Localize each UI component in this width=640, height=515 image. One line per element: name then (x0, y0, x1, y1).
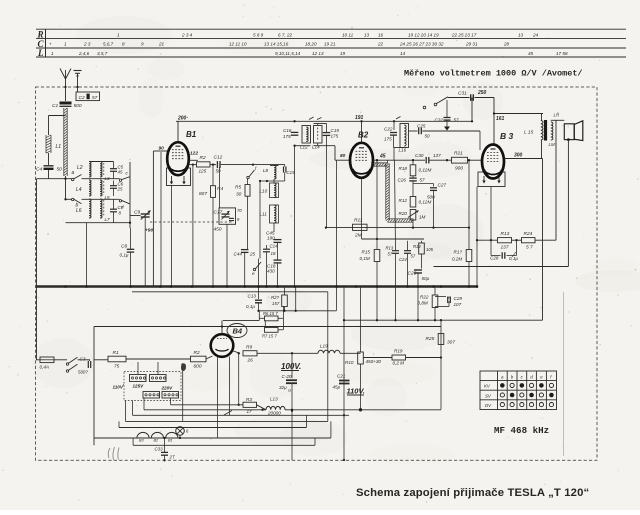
svg-text:B 3: B 3 (500, 131, 514, 141)
svg-text:d: d (121, 205, 124, 210)
wire B3 plate (493, 114, 495, 145)
svg-text:L10: L10 (260, 189, 268, 194)
wire antenna lead lower (65, 176, 67, 200)
transformer core (544, 120, 547, 141)
wire R20 down (412, 220, 414, 228)
capacitor C3 (87, 361, 89, 368)
wire 409 h (292, 409, 441, 411)
node R13 left (490, 239, 492, 241)
rail 200V top (176, 120, 295, 122)
wire B2 plate (361, 121, 363, 143)
svg-text:Měřeno voltmetrem 1000 Ω/V /Av: Měřeno voltmetrem 1000 Ω/V /Avomet/ (404, 69, 583, 79)
wire cathode line (477, 239, 497, 241)
wire L11 to C45 (273, 223, 275, 232)
table line R/C (36, 37, 626, 39)
wire B1 lead1 to bus (160, 152, 162, 287)
svg-text:+90: +90 (145, 228, 153, 234)
svg-text:2 3: 2 3 (83, 42, 91, 47)
wire B1 cathode to bus (192, 165, 194, 287)
svg-text:L1: L1 (56, 144, 62, 150)
wire fuse to switch (54, 359, 67, 361)
rail C31 (448, 97, 470, 99)
svg-text:L13: L13 (270, 397, 278, 402)
tube B3 (482, 145, 504, 179)
svg-text:18: 18 (271, 251, 276, 256)
svg-text:137: 137 (433, 153, 441, 158)
node ground junction (76, 86, 78, 88)
node 320 dots (376, 319, 378, 321)
svg-text:C13: C13 (248, 294, 257, 299)
wire 300 line (504, 158, 543, 160)
wire block bottom to C9 (130, 215, 141, 217)
svg-text:5 8 9: 5 8 9 (253, 32, 264, 37)
inductor L4 (89, 180, 91, 196)
svg-text:R20: R20 (399, 211, 408, 216)
svg-text:C22: C22 (384, 127, 393, 132)
svg-text:110V.: 110V. (347, 387, 365, 396)
svg-text:G: G (288, 388, 291, 393)
svg-text:LŘ: LŘ (554, 113, 560, 118)
table frame bottom line (36, 56, 626, 58)
capacitor C26 (409, 177, 417, 179)
chassis dashed border (36, 87, 598, 460)
tube B1 socket box (167, 168, 191, 186)
node R9 C20 (291, 352, 293, 354)
inductor L14 (314, 126, 323, 144)
svg-text:Schema zapojení přijimače TESL: Schema zapojení přijimače TESLA „T 120“ (356, 487, 589, 499)
wire C21 column (343, 288, 345, 461)
wire selector right col (182, 365, 184, 421)
svg-text:DV: DV (485, 403, 492, 408)
svg-text:C26: C26 (398, 178, 407, 183)
heater winding B2 (151, 432, 163, 438)
wire C3 to box (94, 359, 109, 361)
hatched gang horizontal (388, 218, 414, 220)
wire R1 to R2 (126, 358, 191, 360)
wire 447 col (446, 130, 448, 160)
svg-text:161: 161 (496, 116, 505, 122)
svg-text:110V̕: 110V̕ (113, 383, 124, 390)
svg-text:C32: C32 (435, 118, 444, 123)
resistor R13 (498, 238, 512, 243)
svg-text:175: 175 (283, 134, 291, 139)
svg-text:0,12M: 0,12M (419, 200, 432, 205)
heater line2 (133, 444, 315, 446)
svg-text:8: 8 (122, 42, 125, 47)
heater winding B3 (137, 432, 149, 438)
wire fuse line left (36, 359, 40, 361)
wire IF1 sec bottom (317, 143, 319, 146)
wire C45 down (277, 242, 279, 260)
svg-text:R9: R9 (246, 345, 252, 351)
svg-text:C31: C31 (458, 91, 467, 97)
inductor L15 secondary (551, 122, 553, 140)
svg-text:13: 13 (518, 32, 524, 37)
svg-text:50: 50 (57, 167, 63, 173)
wire IF2 sec top (409, 130, 418, 132)
wire C33 column (164, 438, 166, 452)
resistor R25 (438, 334, 444, 345)
svg-text:0,2 M: 0,2 M (393, 361, 405, 366)
inductor L7 (100, 199, 102, 218)
svg-text:57: 57 (92, 95, 98, 101)
resistor R1 (108, 356, 126, 362)
inductor L2 (89, 162, 91, 178)
svg-text:R2: R2 (194, 350, 200, 356)
svg-text:22: 22 (377, 42, 384, 47)
svg-text:0,1μ: 0,1μ (120, 253, 129, 258)
wire heater run below bus (132, 291, 328, 293)
svg-text:R2: R2 (200, 155, 206, 161)
svg-text:C16: C16 (283, 128, 292, 133)
svg-text:13: 13 (364, 32, 370, 37)
wire C13 down (258, 303, 260, 311)
wire heater right up (330, 421, 332, 438)
svg-text:25: 25 (117, 187, 123, 192)
wire B1 plate (177, 121, 179, 142)
svg-text:220V: 220V (161, 386, 174, 391)
wire B4 to R9 (233, 351, 240, 353)
wire switch f down (247, 179, 249, 185)
svg-text:90: 90 (159, 146, 165, 152)
wire B4 right (233, 347, 238, 350)
resistor R4 (211, 186, 216, 198)
svg-text:0,1M: 0,1M (360, 256, 370, 261)
svg-text:2,4,6: 2,4,6 (78, 51, 90, 56)
svg-text:450+30: 450+30 (366, 359, 382, 364)
svg-text:0,1μ: 0,1μ (246, 304, 255, 309)
resistor R7 (265, 328, 279, 333)
node IF2 top (393, 120, 395, 122)
svg-text:1: 1 (51, 51, 54, 56)
wire R15 to bus (376, 262, 378, 287)
wire L19 to R10 (340, 352, 361, 354)
svg-text:2M: 2M (354, 233, 362, 239)
wire R24 to LM (535, 239, 556, 241)
svg-text:L: L (37, 48, 44, 58)
svg-text:C14: C14 (270, 244, 279, 249)
variable capacitor C17 (222, 213, 230, 215)
wire L1 top link (49, 115, 66, 117)
wire block bottom bar (66, 222, 131, 224)
wire L8 L10 join (273, 179, 275, 183)
svg-text:300: 300 (514, 153, 523, 159)
resistor R2 heater (191, 356, 207, 362)
capacitor C14 (263, 248, 270, 250)
svg-text:45: 45 (118, 170, 123, 175)
wire R4 column top (212, 165, 214, 186)
wire AVC drop (326, 135, 328, 227)
wire C13 top (258, 288, 260, 300)
capacitor C33 (161, 451, 168, 453)
svg-text:12 11 10: 12 11 10 (229, 42, 247, 47)
wire C12 right (220, 164, 253, 166)
wire R19 line (363, 357, 392, 359)
wire C29 vert (448, 297, 450, 299)
selector plug row1b (150, 375, 167, 382)
wire right column of block (129, 162, 131, 228)
wire B3 lead to bus (476, 187, 478, 287)
table frame top line (36, 28, 626, 30)
svg-text:10 11: 10 11 (342, 32, 354, 37)
svg-text:0,12M: 0,12M (419, 168, 432, 173)
svg-text:45: 45 (379, 154, 386, 160)
wire nest1 (133, 414, 350, 416)
svg-text:24: 24 (532, 32, 539, 37)
tube B4 (211, 334, 234, 357)
wire B1 grid line (189, 159, 198, 161)
wire C33 to border (164, 455, 166, 460)
svg-text:26: 26 (247, 358, 254, 364)
wire 310 h (259, 310, 337, 312)
variable capacitor C9 (141, 213, 150, 215)
svg-text:125V: 125V (133, 384, 145, 389)
capacitor C18 (274, 259, 282, 261)
svg-text:B4: B4 (233, 327, 243, 336)
wire band row a (37, 178, 72, 180)
line y320 (344, 319, 543, 321)
wire C8 down (130, 252, 132, 286)
tube B2 (350, 143, 373, 178)
wire to osc coils (253, 164, 285, 166)
wire crossover jog (224, 411, 232, 416)
inductor L13 (266, 406, 285, 409)
wire osc top bar (252, 165, 254, 168)
svg-text:12 13: 12 13 (312, 51, 324, 56)
capacitor C21 (339, 380, 350, 382)
svg-text:57: 57 (411, 254, 416, 259)
inductor L16 (400, 124, 409, 148)
svg-text:L16: L16 (399, 148, 407, 153)
svg-text:C-20: C-20 (282, 374, 292, 379)
resistor R24 (522, 238, 536, 243)
svg-text:R19: R19 (394, 349, 403, 354)
svg-text:B2: B2 (358, 131, 369, 140)
wire lower return (434, 266, 569, 268)
svg-text:14: 14 (400, 51, 406, 56)
wire C9 down (144, 217, 146, 287)
capacitor C16 (291, 131, 299, 133)
wire R21 to B3 (468, 159, 483, 161)
capacitor C29 (435, 296, 446, 298)
svg-text:75: 75 (114, 364, 120, 370)
node avc R20 (412, 226, 414, 228)
svg-text:R7 15 7: R7 15 7 (262, 334, 277, 339)
resistor R9 (243, 351, 257, 356)
svg-text:C25: C25 (417, 124, 426, 129)
capacitor C2 (87, 94, 90, 100)
heater winding B1 (166, 432, 178, 438)
svg-text:70: 70 (237, 208, 242, 213)
mains switch (66, 363, 68, 365)
svg-text:0,2M: 0,2M (452, 257, 462, 262)
table row L numbers (51, 51, 568, 56)
wire nest3 (119, 427, 306, 429)
svg-text:600: 600 (194, 364, 202, 370)
node antenna junction (64, 86, 66, 88)
svg-text:C12: C12 (214, 155, 223, 161)
svg-text:45μ: 45μ (333, 385, 341, 390)
resistor R2 (197, 162, 211, 167)
svg-text:L2: L2 (77, 165, 83, 171)
wire R9 line (257, 352, 318, 354)
capacitor C32 (446, 100, 448, 117)
wire C4 down (48, 170, 50, 179)
resistor R6 (265, 316, 279, 321)
wire switch to C3 (78, 359, 91, 361)
capacitor C20 (286, 379, 297, 381)
capacitor C24 (404, 250, 411, 252)
node b-row (64, 198, 66, 200)
svg-text:1: 1 (117, 32, 120, 37)
wire R13 R24 (512, 239, 522, 241)
band table grid (480, 371, 557, 410)
svg-text:C9: C9 (134, 210, 140, 216)
svg-text:107: 107 (454, 302, 462, 307)
inductor L10 (274, 183, 276, 198)
capacitor C23 (414, 269, 422, 271)
resistor R5 (245, 185, 250, 197)
wire B4 lead1 (228, 357, 230, 416)
wire mains left vert (36, 287, 38, 360)
capacitor C2 box (76, 92, 100, 101)
inductor L15 primary (541, 121, 543, 141)
resistor R11 (353, 224, 368, 230)
wire R19 to R25col (406, 357, 442, 359)
svg-text:3,5,7: 3,5,7 (97, 51, 108, 56)
svg-text:0,4A: 0,4A (40, 365, 49, 370)
capacitor C5 (110, 168, 117, 170)
wire IF1 bottom bar (295, 145, 311, 147)
wire R2 to B4 (206, 356, 213, 359)
svg-text:32μ: 32μ (279, 385, 287, 390)
svg-text:5 7: 5 7 (526, 245, 533, 251)
switch c (119, 179, 121, 181)
svg-text:29 31: 29 31 (465, 42, 478, 47)
wire C20 top (291, 353, 293, 378)
svg-text:122: 122 (190, 151, 198, 157)
resistor R19 (392, 355, 406, 360)
inductor L5 (100, 180, 102, 196)
svg-text:R18: R18 (399, 166, 408, 171)
wire IF1 sec top (314, 123, 327, 125)
inductor L1 (45, 135, 47, 153)
resistor R22 (432, 295, 438, 308)
wire C23 down (417, 273, 419, 320)
wire det down (412, 160, 414, 165)
svg-text:C2: C2 (79, 95, 85, 101)
table row C numbers (49, 42, 510, 47)
svg-text:25: 25 (249, 252, 256, 257)
resistor R10 (358, 352, 364, 364)
wire antenna to C1 (65, 87, 67, 101)
wire 542 column (542, 159, 544, 321)
svg-text:L6: L6 (76, 208, 82, 214)
switch d (119, 200, 121, 202)
resistor R15 (374, 250, 380, 262)
wire R2 to C12 (210, 164, 216, 166)
capacitor C4 (44, 165, 54, 167)
wire selector down1 (132, 401, 134, 416)
wire B3 cathode down (490, 187, 492, 241)
node at switch f (252, 163, 254, 165)
svg-text:L8: L8 (263, 168, 269, 173)
svg-text:R13: R13 (386, 246, 394, 251)
inductor L11 (274, 205, 276, 223)
fuse 0,4A (40, 357, 54, 363)
wire 294 column (294, 146, 296, 287)
capacitor C31 (470, 94, 472, 101)
capacitor C25 (418, 128, 420, 135)
svg-text:2T: 2T (169, 455, 175, 460)
node det (412, 159, 414, 161)
wire L1 to C4 (48, 153, 50, 165)
svg-text:18,20: 18,20 (305, 42, 317, 47)
wire shielded antenna lead (63, 108, 65, 176)
wire C27 down (433, 190, 435, 227)
capacitor C44 (241, 249, 249, 251)
power box left edge (93, 327, 95, 446)
wire C25 to B3 grid (422, 130, 480, 132)
svg-text:125: 125 (199, 169, 207, 174)
wire B2 grid link (334, 146, 336, 161)
svg-text:19 12 20 14 19: 19 12 20 14 19 (408, 32, 439, 37)
wire LM column (555, 120, 557, 240)
selector plug row2a (143, 392, 160, 399)
wire R15col below bus (376, 288, 378, 321)
wire R22 down (434, 308, 436, 321)
svg-text:500: 500 (74, 103, 82, 109)
scan fold artifact (563, 292, 565, 456)
wire C20 down (291, 383, 293, 460)
svg-text:R10: R10 (345, 360, 354, 365)
svg-text:e: e (252, 271, 255, 276)
capacitor C1 (60, 102, 72, 105)
svg-text:R1: R1 (113, 350, 119, 356)
inductor L19 (318, 350, 340, 353)
wire selector up2 (157, 362, 159, 375)
wire C17 to bus (226, 224, 228, 286)
svg-text:C8: C8 (121, 244, 127, 250)
svg-text:LM: LM (549, 142, 555, 147)
wire C12 column down (219, 167, 221, 208)
tuning arrows IF2 (396, 117, 401, 120)
inductor L3 (100, 162, 102, 178)
band table DV row circles (500, 403, 504, 407)
svg-text:200·: 200· (177, 116, 188, 122)
svg-text:57: 57 (454, 118, 460, 123)
tube B1 (167, 142, 189, 175)
scribble artifact (108, 447, 119, 460)
svg-text:L4: L4 (76, 187, 82, 193)
heater line (94, 437, 331, 439)
svg-text:5,6,7: 5,6,7 (103, 42, 114, 47)
svg-text:9: 9 (141, 42, 144, 47)
svg-text:C44: C44 (234, 252, 243, 257)
svg-text:22 25 23 17: 22 25 23 17 (451, 32, 477, 37)
wire row b to d (82, 198, 120, 200)
svg-text:C3: C3 (80, 357, 86, 362)
svg-text:R1?: R1? (454, 250, 463, 255)
svg-text:R21: R21 (454, 151, 463, 157)
svg-text:9,10,11,5,14: 9,10,11,5,14 (275, 51, 301, 56)
svg-text:R14: R14 (413, 244, 421, 249)
wire 335 avc column (336, 160, 338, 310)
svg-text:250: 250 (477, 90, 487, 96)
node IF1 top (293, 120, 295, 122)
svg-text:50: 50 (425, 134, 431, 139)
svg-text:20000: 20000 (267, 411, 281, 416)
